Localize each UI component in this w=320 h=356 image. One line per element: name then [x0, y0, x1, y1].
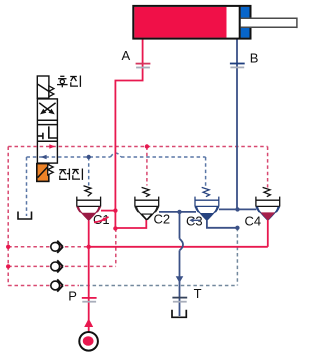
- svg-text:P: P: [68, 288, 77, 303]
- svg-text:C1: C1: [93, 212, 110, 227]
- svg-text:A: A: [122, 48, 131, 63]
- svg-text:B: B: [250, 51, 259, 66]
- svg-text:T: T: [194, 286, 202, 301]
- svg-text:C4: C4: [245, 213, 262, 228]
- svg-text:C2: C2: [154, 212, 171, 227]
